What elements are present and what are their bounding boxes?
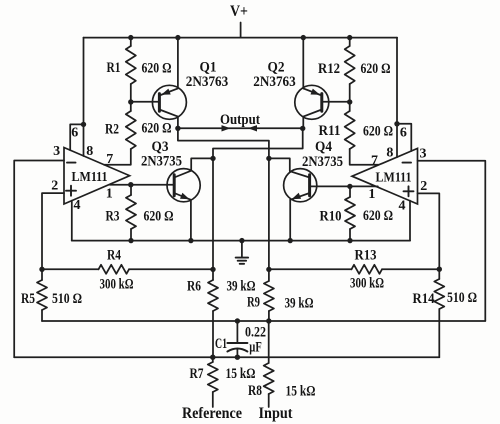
wire: mid vertical left to R4/R6 node bbox=[212, 158, 214, 269]
svg-text:3: 3 bbox=[420, 147, 427, 162]
wire: U2 pin3 to right border bbox=[418, 161, 486, 321]
svg-text:6: 6 bbox=[71, 126, 78, 141]
node: R13 right / R14 top / pin2 right bbox=[437, 267, 442, 272]
resistor R6 39k bbox=[208, 280, 218, 311]
wire: Q4 collector link bbox=[269, 158, 290, 171]
svg-text:R10: R10 bbox=[320, 209, 342, 225]
wire: right pin 6 branch bbox=[397, 124, 411, 151]
svg-text:7: 7 bbox=[106, 152, 113, 167]
resistor R1 bbox=[126, 46, 136, 84]
svg-text:620 Ω: 620 Ω bbox=[142, 61, 172, 77]
op-amp U1 LM111 (left) bbox=[64, 148, 130, 205]
node: R12 top on rail bbox=[347, 35, 352, 40]
svg-text:R3: R3 bbox=[106, 208, 120, 224]
wire: node line A (R5/C1/R9/right border) bbox=[42, 320, 485, 322]
wire: U1 pin2 drop bbox=[42, 193, 64, 269]
svg-text:V+: V+ bbox=[230, 3, 248, 20]
wire: Q2 emitter to rail bbox=[302, 38, 304, 89]
svg-text:510 Ω: 510 Ω bbox=[52, 291, 82, 307]
svg-text:2N3735: 2N3735 bbox=[141, 154, 182, 170]
svg-text:LM111: LM111 bbox=[376, 169, 412, 184]
svg-text:15 kΩ: 15 kΩ bbox=[226, 366, 256, 382]
wire: output line bbox=[178, 127, 303, 129]
svg-text:620 Ω: 620 Ω bbox=[361, 61, 391, 77]
svg-text:2: 2 bbox=[420, 179, 427, 194]
svg-text:R5: R5 bbox=[21, 291, 35, 307]
resistor R2 bbox=[126, 111, 136, 149]
node: R4 right / R6 top bbox=[210, 267, 215, 272]
node: left pin6/8 junction bbox=[81, 122, 86, 127]
node: Q3 collector junction bbox=[210, 156, 215, 161]
wire: U1 pin1 / Q3 base bbox=[110, 184, 175, 186]
svg-text:0.22: 0.22 bbox=[245, 324, 266, 340]
transistor Q3 2N3735 bbox=[167, 169, 200, 202]
resistor R14 510 bbox=[434, 279, 444, 309]
svg-text:Input: Input bbox=[259, 405, 294, 422]
wire: emitter rail bbox=[72, 240, 410, 242]
wire: Q2 base to R12/R11 node bbox=[322, 101, 350, 103]
svg-text:R11: R11 bbox=[319, 123, 341, 139]
top power rail wire bbox=[84, 37, 398, 39]
node: R1 top on rail bbox=[128, 35, 133, 40]
node: Q4 collector junction bbox=[266, 156, 271, 161]
wire: Q1 emitter to rail bbox=[177, 38, 179, 89]
svg-text:Output: Output bbox=[220, 112, 260, 128]
svg-text:3: 3 bbox=[53, 144, 60, 159]
resistor R7 15k bbox=[208, 362, 218, 392]
node: R13 left / R9 top bbox=[266, 267, 271, 272]
svg-text:4: 4 bbox=[74, 198, 81, 213]
transistor Q1 2N3763 bbox=[152, 85, 186, 119]
node: right pin6/8 junction bbox=[394, 121, 399, 126]
svg-text:4: 4 bbox=[399, 199, 406, 214]
svg-text:R8: R8 bbox=[248, 383, 262, 399]
svg-text:620 Ω: 620 Ω bbox=[142, 121, 172, 137]
svg-text:1: 1 bbox=[106, 187, 113, 202]
node: R1/R2/Q1-base junction bbox=[128, 99, 133, 104]
svg-text:2: 2 bbox=[51, 178, 58, 193]
node: Q3 emitter on rail bbox=[188, 238, 193, 243]
svg-text:R12: R12 bbox=[318, 61, 340, 77]
wire: left rail drop to pin 8 bbox=[83, 38, 85, 156]
wire: U2 pin1 / Q4 base bbox=[310, 185, 378, 187]
svg-text:15 kΩ: 15 kΩ bbox=[286, 383, 316, 399]
svg-text:300 kΩ: 300 kΩ bbox=[100, 276, 134, 292]
node: output right bbox=[300, 126, 305, 131]
svg-text:2N3735: 2N3735 bbox=[302, 154, 343, 170]
svg-text:R4: R4 bbox=[107, 247, 121, 263]
svg-text:R6: R6 bbox=[187, 278, 201, 294]
svg-text:R9: R9 bbox=[247, 295, 260, 311]
resistor R13 300k bbox=[352, 265, 383, 274]
ground bbox=[236, 241, 248, 264]
svg-text:8: 8 bbox=[386, 146, 393, 161]
node: pin1/R3 junction bbox=[128, 182, 133, 187]
resistor R8 15k bbox=[264, 363, 274, 394]
node: R6/R7 junction bbox=[210, 355, 215, 360]
wire: Q2 collector to output node bbox=[302, 117, 304, 129]
svg-text:R1: R1 bbox=[107, 60, 121, 76]
svg-text:C1: C1 bbox=[215, 336, 227, 352]
resistor R4 300k bbox=[99, 265, 130, 274]
node: C1 top bbox=[235, 318, 240, 323]
svg-text:Reference: Reference bbox=[182, 405, 242, 422]
node: R10 bottom on emitter rail bbox=[347, 238, 352, 243]
wire: Q3 collector link bbox=[191, 158, 213, 170]
svg-text:7: 7 bbox=[371, 153, 378, 168]
node: ground on rail bbox=[239, 238, 244, 243]
svg-text:Q3: Q3 bbox=[152, 139, 169, 155]
wire: left output to Q4 collector (crossover) bbox=[178, 128, 269, 158]
svg-text:1: 1 bbox=[368, 187, 375, 202]
wire: Q4 emitter to rail bbox=[289, 200, 291, 241]
node: C1 bottom bbox=[235, 355, 240, 360]
svg-text:Q4: Q4 bbox=[315, 139, 332, 155]
node: output left bbox=[175, 126, 180, 131]
op-amp U2 LM111 (right) bbox=[352, 148, 418, 204]
svg-text:39 kΩ: 39 kΩ bbox=[227, 278, 256, 294]
svg-text:39 kΩ: 39 kΩ bbox=[285, 296, 314, 312]
svg-text:6: 6 bbox=[400, 126, 407, 141]
svg-text:2N3763: 2N3763 bbox=[253, 74, 296, 90]
V+ stem wire bbox=[240, 23, 242, 38]
svg-text:R13: R13 bbox=[355, 247, 377, 263]
wire: Q3 emitter to rail bbox=[190, 200, 192, 241]
transistor Q2 2N3763 bbox=[295, 85, 329, 119]
wire: U2 pin4 to emitter rail bbox=[409, 201, 411, 241]
wire: right rail drop to pin 8 bbox=[396, 38, 398, 158]
capacitor C1 0.22uF bbox=[227, 321, 247, 357]
wire: U1 pin4 to emitter rail bbox=[71, 201, 73, 241]
resistor R10 bbox=[345, 197, 355, 229]
wire: Q1 collector to output node bbox=[177, 117, 179, 129]
resistor R11 bbox=[345, 111, 355, 149]
wire: U1 pin3 to left border bbox=[14, 161, 64, 358]
resistor R5 510 bbox=[37, 280, 47, 310]
node: R12/R11/Q2-base junction bbox=[347, 99, 352, 104]
wire: right output to Q3 collector (crossover) bbox=[213, 128, 303, 158]
wire: U2 pin2 drop bbox=[418, 193, 440, 269]
wire: node line B (left border/R7/C1/R14) bbox=[14, 356, 439, 358]
resistor R3 bbox=[126, 195, 136, 229]
svg-text:R14: R14 bbox=[413, 291, 435, 307]
svg-text:R2: R2 bbox=[105, 121, 119, 137]
svg-text:LM111: LM111 bbox=[72, 169, 108, 184]
svg-text:8: 8 bbox=[86, 144, 93, 159]
svg-text:510 Ω: 510 Ω bbox=[447, 290, 477, 306]
transistor Q4 2N3735 bbox=[284, 169, 317, 202]
resistor R12 bbox=[345, 46, 355, 84]
wire: left pin 6 branch bbox=[70, 124, 83, 150]
node: Q4 emitter on rail bbox=[288, 238, 293, 243]
svg-text:620 Ω: 620 Ω bbox=[144, 208, 174, 224]
wire: Q1 base from R1/R2 node bbox=[131, 101, 160, 103]
wire: mid vertical right to R13/R9 node bbox=[268, 158, 270, 269]
svg-text:R7: R7 bbox=[190, 366, 204, 382]
svg-text:300 kΩ: 300 kΩ bbox=[350, 276, 384, 292]
node: R3 bottom on emitter rail bbox=[128, 238, 133, 243]
svg-text:620 Ω: 620 Ω bbox=[363, 208, 393, 224]
node: pin1/R10 junction right bbox=[347, 184, 352, 189]
node: R9 bottom / R8 top bbox=[266, 318, 271, 323]
svg-text:µF: µF bbox=[249, 339, 262, 355]
svg-text:620 Ω: 620 Ω bbox=[363, 123, 393, 139]
resistor R9 39k bbox=[264, 281, 274, 311]
svg-text:2N3763: 2N3763 bbox=[186, 74, 229, 90]
node: R4 left / R5 top / pin2 bbox=[39, 267, 44, 272]
